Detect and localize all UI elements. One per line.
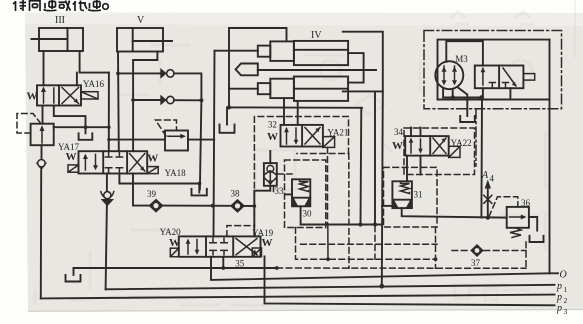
wire: O right vertical bbox=[549, 40, 551, 274]
check valve below YA17 bbox=[36, 163, 48, 171]
IV center rod line bbox=[258, 69, 376, 71]
IV right distributor frame bbox=[343, 32, 383, 92]
dashed box around valve 30 bbox=[285, 160, 326, 228]
wire: IV distributor drop pipes bbox=[360, 108, 363, 225]
tank under IV frame bbox=[220, 125, 235, 133]
wire: 30 bottom to collector bbox=[301, 206, 382, 224]
check valve 38 bbox=[230, 189, 245, 213]
rod V bbox=[133, 40, 172, 42]
valve 31 (sequence) bbox=[382, 181, 507, 217]
svg-text:YA16: YA16 bbox=[83, 79, 105, 89]
YA17 dashed pilot loop bbox=[17, 114, 40, 134]
dashed drain line H1 bbox=[301, 243, 437, 245]
wire: mid vertical x=214.5 (supply to valve 35) bbox=[214, 51, 215, 237]
wire: YA16 X-cell top stub bbox=[76, 73, 78, 86]
svg-text:p: p bbox=[556, 281, 562, 292]
tank under YA18 bbox=[192, 189, 207, 196]
dashed drain bus lower bbox=[277, 267, 526, 269]
solenoid 34 bbox=[449, 146, 460, 157]
dashed box around valve 31 bbox=[384, 167, 438, 227]
svg-text:YA21: YA21 bbox=[327, 128, 348, 138]
svg-text:1: 1 bbox=[564, 285, 568, 294]
wire: YA17 output to right bbox=[54, 126, 109, 128]
YA16 left cell straight path arrow bbox=[43, 89, 45, 103]
svg-text:36: 36 bbox=[521, 198, 531, 208]
wire: YA18 supply port down bbox=[106, 174, 108, 193]
clipped Chinese caption (bottom fragments only) bbox=[13, 0, 108, 11]
svg-text:3: 3 bbox=[564, 307, 568, 316]
valve 33 (piloted check) bbox=[254, 151, 284, 236]
check valve under YA18 bbox=[101, 192, 114, 207]
solenoid 35 left bbox=[170, 248, 179, 257]
wire: valve 35 to O line bbox=[211, 257, 558, 280]
motor top pipe to pilot valve bbox=[446, 41, 483, 65]
svg-text:IV: IV bbox=[311, 30, 322, 41]
36 dashed pilot bbox=[489, 197, 518, 217]
wire: valve 35 drain to tank line bbox=[222, 257, 224, 268]
svg-text:W: W bbox=[147, 153, 158, 165]
valve 40 dashed pilot bbox=[156, 120, 177, 136]
svg-text:W: W bbox=[27, 91, 38, 103]
tank under 36 bbox=[530, 236, 544, 242]
dash-dot A4 boundary stub bbox=[475, 109, 477, 166]
wire: cyl V left port down to YA18 bbox=[117, 52, 120, 152]
wire: cyl V right port elbow down to YA18 bbox=[133, 52, 157, 152]
32 crossed cell bbox=[305, 128, 320, 145]
IV right connector bracket bbox=[348, 53, 364, 83]
valve 34 YA22 (2-pos 4-way) bbox=[392, 127, 472, 181]
wire: YA17 bottom to check valve bbox=[41, 145, 43, 161]
YA18 center cell closed marks bbox=[105, 153, 122, 173]
34 crossed cell bbox=[433, 138, 446, 154]
solenoid 32 bbox=[323, 137, 335, 148]
svg-text:W: W bbox=[392, 140, 403, 152]
svg-text:31: 31 bbox=[414, 190, 423, 200]
machine boundary dash-dot frame (M3 unit) bbox=[424, 31, 562, 109]
solenoid YA18 right bbox=[147, 167, 158, 174]
IV lower piston unit bbox=[258, 83, 271, 94]
IV upper piston unit bbox=[258, 46, 271, 57]
IV upper feed pipe bbox=[215, 50, 258, 52]
port A4 arrow bbox=[481, 170, 495, 218]
wire: 34 top ports bbox=[410, 128, 412, 137]
wire: P1 bus bbox=[106, 285, 555, 290]
wire: long vertical x=108.9 to YA18 bbox=[108, 73, 110, 152]
wire: 30 left stub bbox=[285, 193, 292, 195]
svg-text:V: V bbox=[137, 15, 145, 26]
IV nose pointer bbox=[236, 64, 258, 76]
spring 36 bbox=[510, 228, 521, 238]
35 center cell closed marks bbox=[210, 238, 227, 254]
piston III bbox=[67, 28, 69, 51]
35 left cell arrows bbox=[187, 241, 189, 255]
wire: YA16 drain staircase to tank line bbox=[54, 106, 86, 128]
svg-text:32: 32 bbox=[268, 120, 277, 130]
wire: P3 bus bbox=[265, 256, 555, 305]
svg-text:34: 34 bbox=[394, 127, 404, 137]
IV lower feed pipe bbox=[229, 88, 258, 90]
dashed box around valve 34 bbox=[404, 128, 475, 175]
pilot valve side tab bbox=[523, 74, 534, 81]
svg-text:YA18: YA18 bbox=[165, 168, 187, 178]
svg-text:2: 2 bbox=[564, 296, 568, 305]
wire: main riser to P1 bbox=[382, 91, 383, 286]
dashed drop from B1 to drain bbox=[348, 154, 350, 269]
svg-text:YA20: YA20 bbox=[160, 227, 182, 237]
wire: cyl III left port down to YA16 bbox=[43, 51, 45, 85]
cylinder III bbox=[32, 15, 84, 51]
piston V bbox=[132, 28, 134, 52]
wire: 34 bottom port to valve 31 bbox=[406, 156, 408, 182]
svg-text:35: 35 bbox=[235, 258, 245, 268]
svg-text:YA22: YA22 bbox=[451, 138, 472, 148]
wire: YA18 drain line to tank bbox=[119, 174, 199, 184]
wire: down to P1 elbow bbox=[106, 204, 107, 289]
svg-text:p: p bbox=[556, 303, 562, 314]
34 left cell arrows bbox=[410, 140, 412, 154]
tank under YA17 output bbox=[79, 133, 93, 140]
wire: P2 bus bbox=[41, 295, 555, 299]
svg-text:W: W bbox=[262, 237, 273, 249]
wire: 32 top ports bbox=[229, 106, 362, 108]
wire: check-valve branch line y=205.5 bbox=[133, 174, 149, 206]
wire: CV1 line bbox=[118, 72, 160, 74]
svg-text:III: III bbox=[55, 15, 65, 26]
wire: cyl III right port elbow to vertical bbox=[80, 51, 109, 73]
YA18 crossed cell bbox=[130, 154, 145, 172]
relief valve 36 bbox=[489, 197, 544, 242]
check valve CV1 (cyl V line) bbox=[118, 68, 201, 100]
wire: line through valve 40 bbox=[109, 139, 165, 141]
dashed solenoid drain of 32 bbox=[327, 147, 329, 224]
svg-text:O: O bbox=[560, 270, 567, 281]
wire: down to P2 elbow bbox=[40, 170, 42, 298]
svg-text:30: 30 bbox=[303, 209, 313, 219]
tank under motor bbox=[460, 116, 475, 122]
wire: 31 left stub bbox=[382, 205, 392, 207]
valve 35 (YA20/YA19 3-pos 4-way) bbox=[160, 227, 274, 268]
wire: 31 bottom drain to valve 36 bbox=[402, 208, 507, 218]
dashed check valve 37 branch bbox=[452, 250, 470, 252]
pilot valve (2-pos) bbox=[475, 66, 535, 89]
svg-text:W: W bbox=[169, 237, 180, 249]
valve 30 (sequence) bbox=[285, 179, 382, 224]
wire: pilot valve right-cell bottom stub bbox=[509, 88, 511, 99]
36 outlet elbow to tank bbox=[529, 217, 537, 231]
svg-text:4: 4 bbox=[490, 174, 495, 184]
wire: pilot valve bottom port / riser down bbox=[482, 88, 484, 97]
wire: YA16 bottom to YA17 bbox=[42, 106, 44, 124]
pressure valve YA17 bbox=[17, 114, 109, 299]
solenoid YA16 bbox=[81, 92, 98, 99]
svg-text:YA19: YA19 bbox=[252, 228, 274, 238]
motor M3 bbox=[435, 54, 468, 89]
svg-text:39: 39 bbox=[147, 189, 157, 199]
wire: mid vertical x=200.5 down to tank bbox=[200, 100, 202, 189]
YA16 crossed cell bbox=[62, 88, 79, 104]
svg-text:33: 33 bbox=[275, 186, 285, 196]
motor bottom drain piping bbox=[443, 89, 483, 98]
wire: CV2 line bbox=[133, 99, 160, 101]
tank bottom-left bbox=[66, 275, 81, 282]
check valve 37 bbox=[470, 244, 484, 268]
valve YA18 (3-pos 4-way) bbox=[66, 151, 187, 178]
wire: 33 bottom chain to valve 35 bbox=[254, 186, 270, 237]
32 left cell arrows bbox=[286, 129, 288, 144]
dashed pilot 33-30 bbox=[278, 173, 293, 175]
svg-text:p: p bbox=[556, 292, 562, 303]
check valve CV2 (cyl V line 2) bbox=[133, 95, 201, 106]
svg-text:A: A bbox=[481, 170, 489, 181]
reducing valve 40 (second block) bbox=[109, 120, 214, 151]
check valve 39 bbox=[147, 189, 164, 213]
solenoid YA18 left bbox=[68, 165, 79, 172]
solenoid 35 right bbox=[252, 248, 261, 257]
svg-text:M3: M3 bbox=[455, 54, 468, 64]
rod III bbox=[32, 38, 68, 40]
svg-text:37: 37 bbox=[471, 258, 481, 268]
M3 unit solid frame bbox=[438, 40, 550, 100]
dashed manifold B1 around valve 32 and 33 bbox=[227, 117, 349, 269]
wire: 33 top port bbox=[269, 151, 271, 163]
cylinder IV assembly bbox=[215, 28, 383, 107]
dashed drain bus D1 bbox=[296, 228, 436, 260]
svg-text:W: W bbox=[66, 151, 77, 163]
dashed drop below 375 dot bbox=[374, 226, 376, 259]
YA18 left cell arrows bbox=[84, 156, 86, 170]
35 crossed cell bbox=[236, 239, 257, 255]
cylinder V bbox=[117, 15, 172, 52]
valve YA16 bbox=[27, 73, 105, 128]
IV enclosure left/top bbox=[229, 28, 287, 107]
dashed riser at 435 bbox=[435, 227, 437, 268]
svg-text:38: 38 bbox=[231, 189, 241, 199]
svg-text:W: W bbox=[267, 131, 278, 143]
valve 32 YA21 (2-pos 4-way) bbox=[229, 98, 362, 147]
